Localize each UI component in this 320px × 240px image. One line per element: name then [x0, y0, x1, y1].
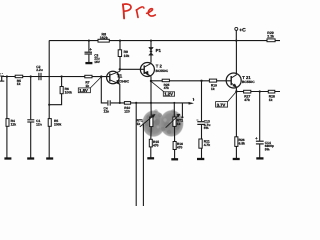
svg-text:5%: 5% — [204, 126, 209, 130]
svg-text:4.7k: 4.7k — [204, 143, 211, 147]
svg-text:12n: 12n — [36, 123, 42, 127]
svg-text:T1: T1 — [117, 74, 123, 79]
svg-text:120: 120 — [124, 109, 130, 113]
svg-text:BC550C: BC550C — [156, 69, 169, 73]
svg-text:5%: 5% — [265, 148, 270, 152]
svg-text:1k: 1k — [269, 98, 273, 102]
svg-text:1.2V: 1.2V — [164, 92, 173, 97]
svg-text:T 2: T 2 — [156, 64, 163, 69]
svg-text:3.7V: 3.7V — [217, 102, 226, 107]
svg-text:1k: 1k — [137, 122, 141, 126]
svg-text:1k: 1k — [17, 82, 21, 86]
svg-text:47k: 47k — [164, 86, 170, 90]
svg-text:10k: 10k — [124, 54, 130, 58]
svg-text:470: 470 — [177, 146, 183, 150]
svg-text:200k: 200k — [54, 123, 62, 127]
svg-text:100k: 100k — [65, 90, 73, 94]
svg-text:1k: 1k — [211, 87, 215, 91]
svg-text:12n: 12n — [104, 110, 110, 114]
svg-text:12k: 12k — [11, 123, 17, 127]
svg-text:+C: +C — [239, 28, 246, 34]
svg-text:16V: 16V — [94, 60, 101, 64]
svg-text:P1: P1 — [156, 48, 162, 53]
svg-text:BC550C: BC550C — [242, 80, 255, 84]
svg-text:2.2u: 2.2u — [36, 68, 43, 72]
svg-text:470: 470 — [153, 144, 159, 148]
svg-text:1k: 1k — [177, 122, 181, 126]
svg-text:6.8k: 6.8k — [239, 142, 246, 146]
svg-text:47k: 47k — [244, 98, 250, 102]
svg-text:1.5V: 1.5V — [79, 88, 88, 93]
svg-text:2.2k: 2.2k — [267, 34, 274, 38]
svg-text:BC549C: BC549C — [117, 79, 130, 83]
svg-text:162k: 162k — [100, 36, 108, 40]
